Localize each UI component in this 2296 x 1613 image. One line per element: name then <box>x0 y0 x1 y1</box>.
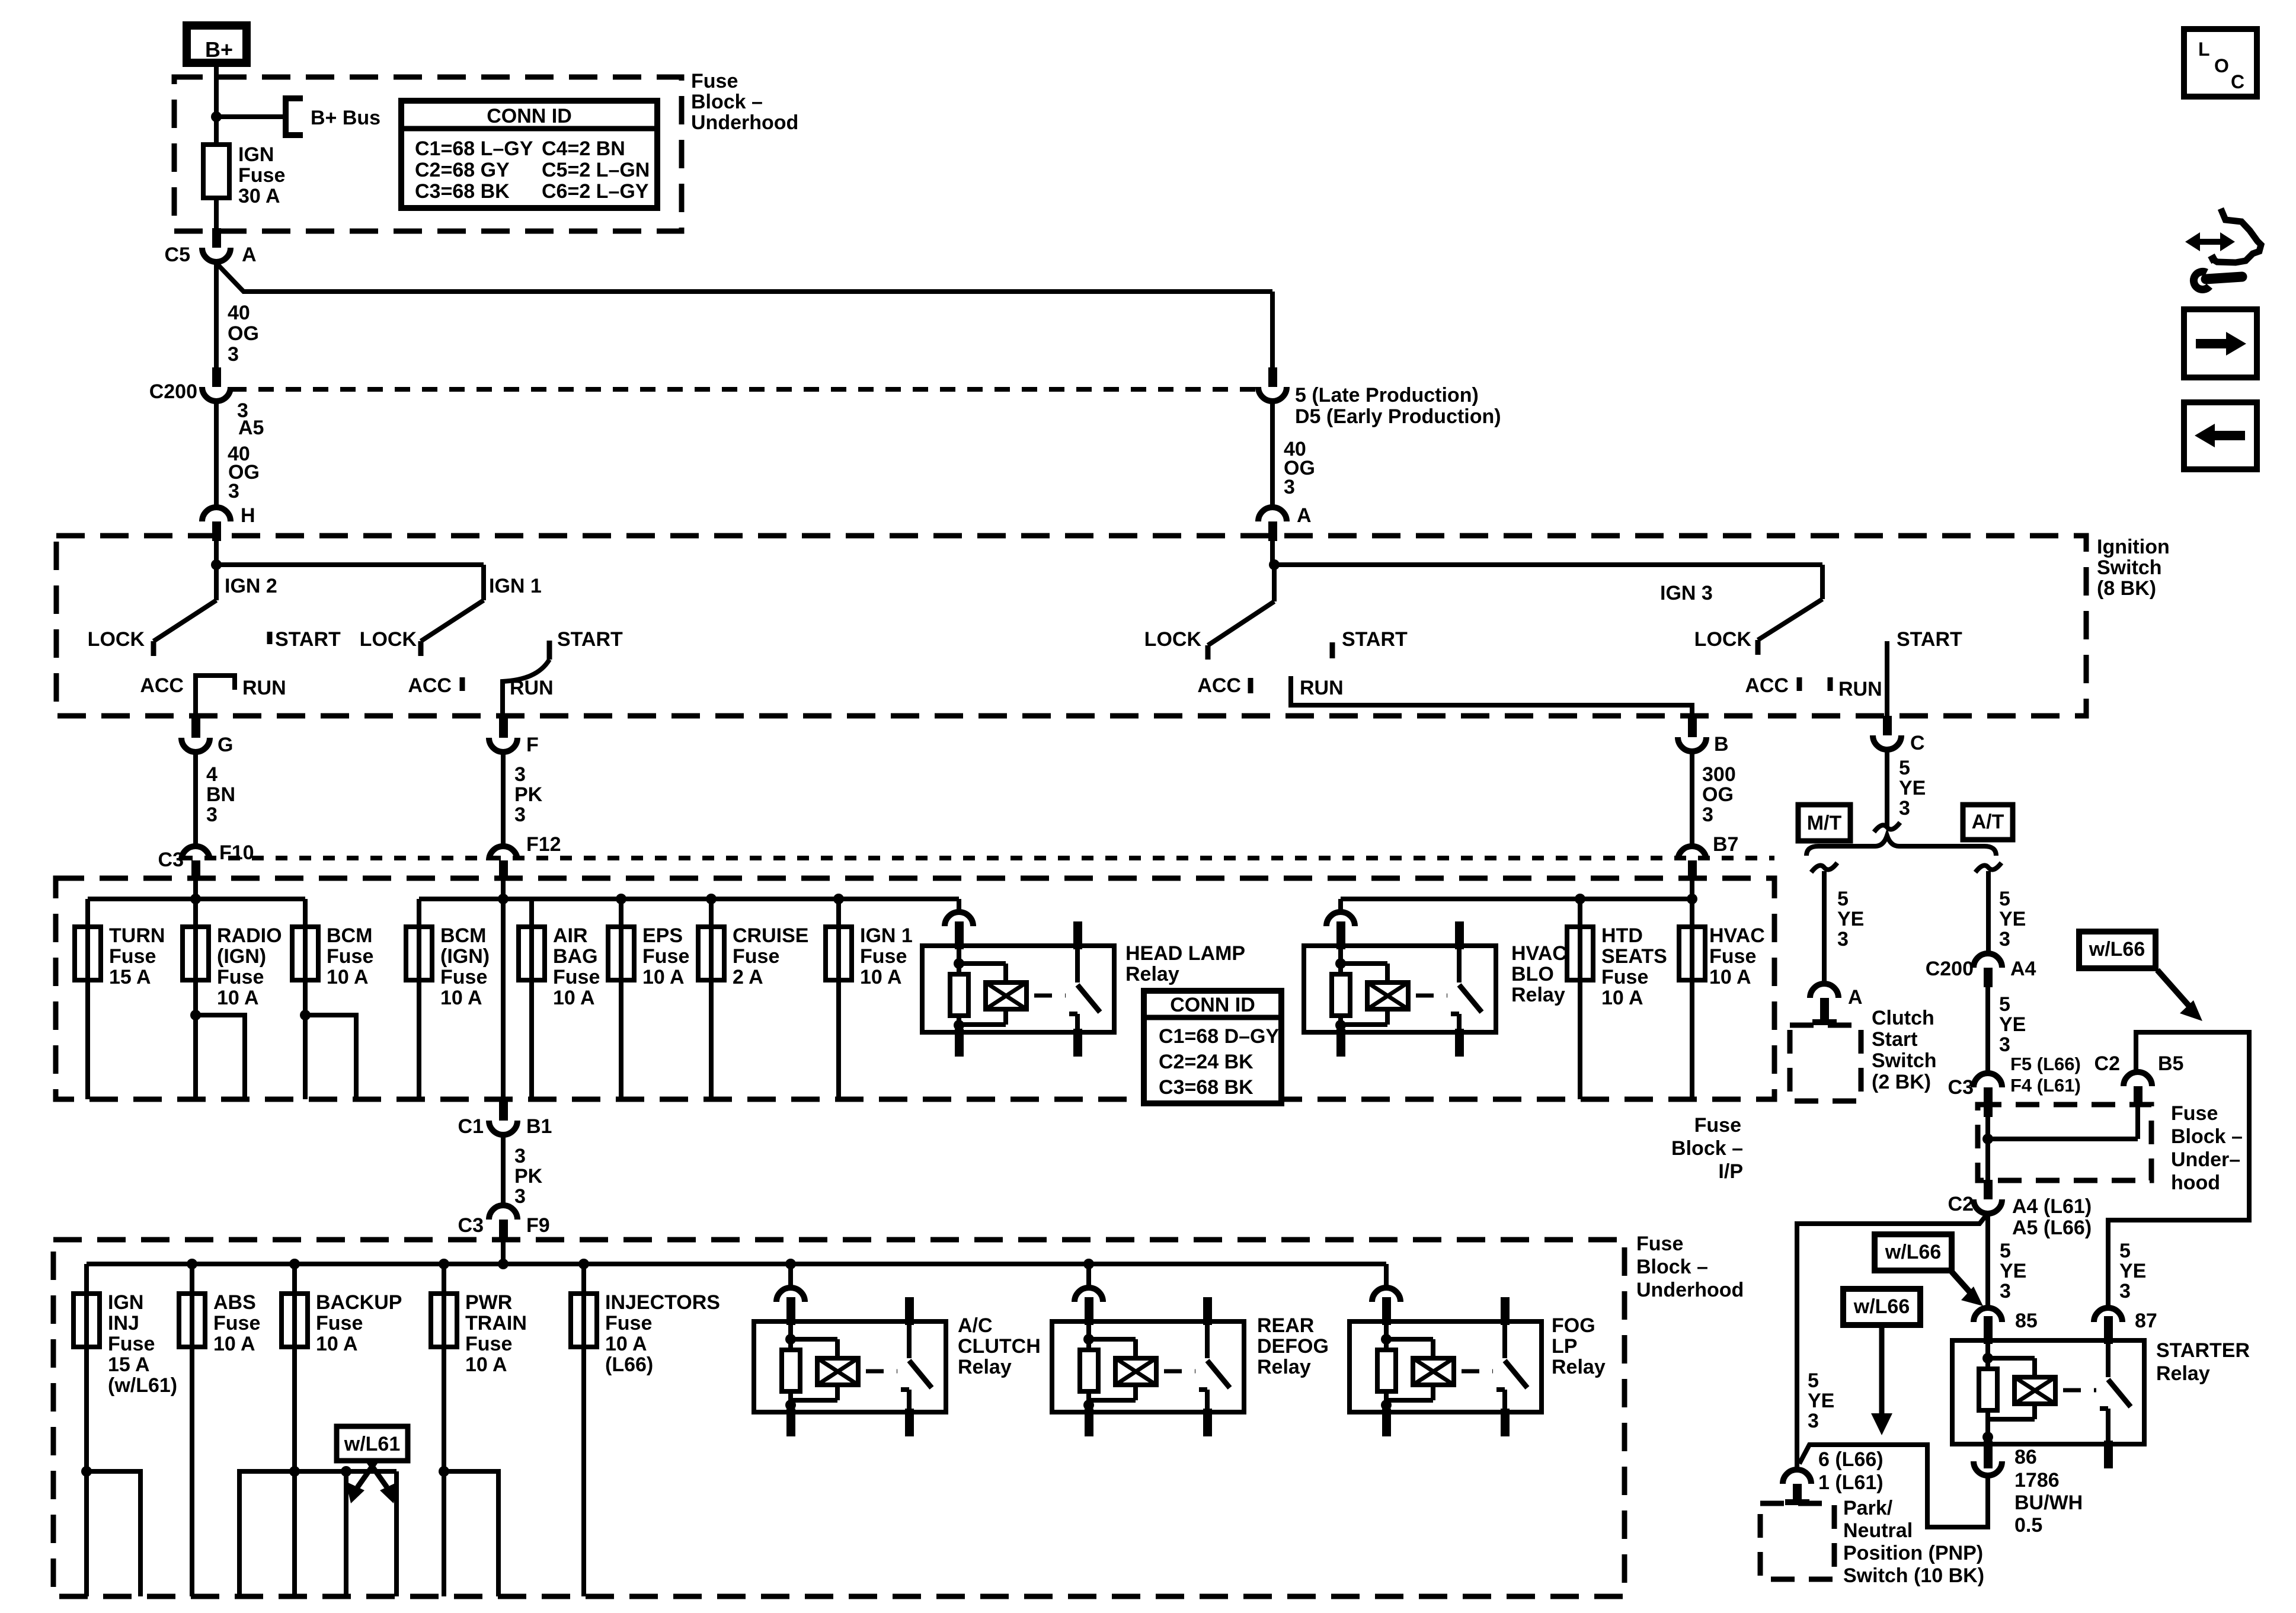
svg-text:C3: C3 <box>1948 1076 1974 1099</box>
svg-text:ACC: ACC <box>1745 674 1789 697</box>
svg-text:5: 5 <box>1999 993 2010 1016</box>
svg-text:Fuse: Fuse <box>109 945 156 968</box>
connector 87 <box>2094 1308 2122 1322</box>
wire 86 to PNP <box>1799 1445 1988 1527</box>
wire ABS column <box>190 1264 194 1596</box>
svg-text:3: 3 <box>228 480 239 503</box>
fuse IGN INJ 15A (w/L61) <box>73 1294 100 1347</box>
svg-text:C3=68 BK: C3=68 BK <box>1159 1076 1253 1099</box>
wire: IGN fuse to C5 <box>214 197 219 229</box>
ignition switch section 3 (RUN to B) <box>1270 539 1275 565</box>
svg-text:INJECTORS: INJECTORS <box>605 1291 720 1314</box>
connector C <box>1883 716 1892 735</box>
svg-text:w/L66: w/L66 <box>1853 1295 1910 1318</box>
fuse RADIO (IGN) 10A <box>183 927 209 980</box>
svg-text:Park/: Park/ <box>1843 1497 1893 1519</box>
svg-text:3: 3 <box>514 804 526 826</box>
svg-text:Fuse: Fuse <box>691 70 738 92</box>
svg-text:DEFOG: DEFOG <box>1257 1335 1329 1358</box>
svg-text:(IGN): (IGN) <box>440 945 490 968</box>
svg-text:3: 3 <box>1899 797 1910 820</box>
svg-text:3: 3 <box>206 804 218 826</box>
svg-text:LOCK: LOCK <box>88 628 145 651</box>
wire: C200 to H <box>214 401 219 507</box>
svg-text:IGN 2: IGN 2 <box>225 575 277 597</box>
wire BCM column <box>303 899 308 1099</box>
svg-text:AIR: AIR <box>553 924 588 947</box>
svg-text:FOG: FOG <box>1552 1314 1595 1337</box>
svg-text:F10: F10 <box>219 841 254 864</box>
svg-text:Switch (10 BK): Switch (10 BK) <box>1843 1564 1984 1587</box>
w/L61 flag box and arrows <box>337 1426 408 1461</box>
relay A/C CLUTCH <box>754 1321 946 1412</box>
svg-text:I/P: I/P <box>1718 1160 1743 1183</box>
svg-text:10 A: 10 A <box>1601 987 1643 1009</box>
svg-text:Fuse: Fuse <box>553 966 600 988</box>
svg-text:C2=68 GY: C2=68 GY <box>415 159 510 181</box>
svg-text:Block –: Block – <box>691 91 763 113</box>
svg-text:Relay: Relay <box>2156 1362 2210 1385</box>
I/P right bus <box>419 897 959 901</box>
fuse CRUISE 2A <box>709 899 714 1099</box>
svg-text:3: 3 <box>1837 928 1849 950</box>
svg-text:F: F <box>526 734 539 756</box>
svg-text:87: 87 <box>2135 1310 2157 1332</box>
svg-text:Fuse: Fuse <box>733 945 779 968</box>
svg-text:3: 3 <box>1999 928 2010 950</box>
svg-text:Fuse: Fuse <box>1601 966 1648 988</box>
svg-text:TURN: TURN <box>109 924 165 947</box>
wire: C5 down to C200 <box>214 262 219 367</box>
svg-text:Fuse: Fuse <box>2171 1102 2218 1125</box>
fuse HVAC 10A <box>1690 879 1694 1099</box>
svg-text:85: 85 <box>2015 1310 2038 1332</box>
I/P left bus <box>88 897 305 901</box>
svg-text:10 A: 10 A <box>213 1333 255 1355</box>
svg-text:M/T: M/T <box>1807 812 1842 834</box>
svg-text:ACC: ACC <box>408 674 452 697</box>
svg-text:Ignition: Ignition <box>2097 536 2170 558</box>
svg-text:C4=2 BN: C4=2 BN <box>542 137 625 160</box>
svg-text:Fuse: Fuse <box>108 1333 155 1355</box>
HEAD LAMP relay feed <box>957 899 961 913</box>
svg-text:IGN 1: IGN 1 <box>489 575 542 597</box>
svg-text:BCM: BCM <box>327 924 372 947</box>
svg-text:Fuse: Fuse <box>465 1333 512 1355</box>
svg-text:STARTER: STARTER <box>2156 1339 2250 1362</box>
output loop below PWR TRAIN <box>439 1466 449 1477</box>
fuse block underhood (top) dashed box <box>174 77 682 231</box>
svg-text:PWR: PWR <box>465 1291 512 1314</box>
next-page arrow box <box>2184 309 2257 377</box>
svg-text:(L66): (L66) <box>605 1353 653 1376</box>
svg-text:START: START <box>557 628 623 651</box>
svg-text:ACC: ACC <box>1197 674 1241 697</box>
svg-text:Fuse: Fuse <box>217 966 264 988</box>
svg-text:Switch: Switch <box>2097 556 2162 579</box>
svg-text:START: START <box>1897 628 1962 651</box>
relay FOG LP <box>1350 1321 1542 1412</box>
wire G to F10, label 4 BN 3 <box>193 752 198 846</box>
svg-text:LOCK: LOCK <box>1144 628 1202 651</box>
svg-text:HEAD LAMP: HEAD LAMP <box>1125 942 1245 965</box>
relay REAR DEFOG <box>1052 1321 1244 1412</box>
svg-text:Under–: Under– <box>2171 1148 2240 1171</box>
wire: down to ignition switch A <box>1270 401 1275 508</box>
wire: to B+ Bus <box>216 114 286 119</box>
svg-text:Fuse: Fuse <box>440 966 487 988</box>
svg-text:Relay: Relay <box>1257 1356 1311 1378</box>
CONN ID table (I/P) <box>1144 991 1281 1103</box>
relay REAR DEFOG feed <box>1086 1264 1091 1288</box>
svg-text:30 A: 30 A <box>238 185 280 207</box>
svg-text:5 (Late Production): 5 (Late Production) <box>1295 384 1479 407</box>
IGN2 START contact <box>267 632 273 644</box>
svg-text:w/L66: w/L66 <box>2089 938 2145 961</box>
svg-text:C2: C2 <box>2094 1052 2120 1075</box>
ignition switch dashed box <box>56 536 2086 716</box>
ignition switch section 4 (START to C) <box>1820 565 1825 599</box>
fuse TURN 15A <box>75 927 101 980</box>
svg-text:Start: Start <box>1872 1028 1917 1051</box>
relay HEAD LAMP <box>922 946 1114 1032</box>
svg-text:(IGN): (IGN) <box>217 945 266 968</box>
svg-text:D5 (Early Production): D5 (Early Production) <box>1295 405 1501 428</box>
battery feed B+ box <box>187 25 247 63</box>
svg-text:BN: BN <box>206 783 235 806</box>
svg-text:BLO: BLO <box>1511 963 1554 985</box>
svg-text:A: A <box>1297 504 1312 527</box>
IGN2 blade to LOCK <box>154 600 216 641</box>
fuse ABS 10A <box>179 1294 205 1347</box>
connector 86 <box>1984 1442 1993 1461</box>
fuse IGN 1 10A <box>836 899 841 1099</box>
svg-text:TRAIN: TRAIN <box>465 1312 527 1334</box>
section3 RUN contact feed to B <box>1291 676 1692 716</box>
connector A <box>1258 507 1287 521</box>
svg-text:C6=2 L–GY: C6=2 L–GY <box>542 180 649 203</box>
svg-text:3: 3 <box>2000 1280 2011 1302</box>
wire BACKUP column <box>292 1264 297 1596</box>
svg-text:5: 5 <box>1808 1369 1819 1392</box>
svg-text:CRUISE: CRUISE <box>733 924 808 947</box>
svg-text:A/C: A/C <box>958 1314 993 1337</box>
svg-text:15 A: 15 A <box>109 966 151 988</box>
svg-text:C3=68 BK: C3=68 BK <box>415 180 510 203</box>
svg-text:B5: B5 <box>2158 1052 2183 1075</box>
svg-text:300: 300 <box>1702 763 1736 786</box>
svg-text:Relay: Relay <box>1125 963 1179 985</box>
svg-text:YE: YE <box>1899 777 1926 799</box>
svg-text:C1=68 L–GY: C1=68 L–GY <box>415 137 533 160</box>
wrench icon <box>2206 277 2242 279</box>
svg-text:1786: 1786 <box>2014 1469 2060 1492</box>
svg-text:5: 5 <box>2000 1240 2011 1262</box>
svg-text:Relay: Relay <box>958 1356 1012 1378</box>
svg-text:ACC: ACC <box>140 674 184 697</box>
svg-text:3: 3 <box>2119 1280 2131 1302</box>
wire A4 to C3, label 5 YE 3 <box>1985 987 1990 1073</box>
svg-text:HVAC: HVAC <box>1709 924 1765 947</box>
svg-text:INJ: INJ <box>108 1312 139 1334</box>
svg-text:(2 BK): (2 BK) <box>1872 1071 1931 1093</box>
w/L66 flag box (top) <box>2079 932 2156 968</box>
svg-text:RUN: RUN <box>242 677 286 699</box>
svg-text:BACKUP: BACKUP <box>316 1291 402 1314</box>
fuse PWR TRAIN 10A <box>431 1294 457 1347</box>
svg-text:Fuse: Fuse <box>1694 1114 1741 1137</box>
svg-text:START: START <box>1342 628 1408 651</box>
svg-text:OG: OG <box>228 322 259 345</box>
svg-text:RUN: RUN <box>510 677 554 699</box>
svg-text:C2=24 BK: C2=24 BK <box>1159 1051 1253 1073</box>
svg-text:CONN ID: CONN ID <box>1170 994 1255 1016</box>
HVAC BLO relay feed bus <box>1341 897 1692 901</box>
CONN ID table (underhood) <box>401 101 657 208</box>
svg-text:10 A: 10 A <box>440 987 482 1009</box>
wire RADIO column <box>193 879 198 1099</box>
svg-text:C5=2 L–GN: C5=2 L–GN <box>542 159 650 181</box>
connector G <box>191 718 200 738</box>
svg-text:(w/L61): (w/L61) <box>108 1374 177 1397</box>
svg-text:LOCK: LOCK <box>360 628 417 651</box>
svg-text:H: H <box>241 504 255 527</box>
wire: C2 branch to PNP (left loop) <box>1797 1215 1987 1470</box>
svg-text:B7: B7 <box>1713 833 1738 856</box>
svg-text:Fuse: Fuse <box>327 945 373 968</box>
svg-text:Underhood: Underhood <box>691 111 798 134</box>
svg-text:w/L66: w/L66 <box>1885 1241 1941 1263</box>
C200 connector line (dotted, lower) <box>181 856 1774 860</box>
connector C5 / A <box>212 228 221 248</box>
svg-text:PK: PK <box>514 783 543 806</box>
svg-text:BAG: BAG <box>553 945 598 968</box>
svg-text:YE: YE <box>2000 1260 2026 1282</box>
fuse EPS 10A <box>619 899 623 1099</box>
svg-text:10 A: 10 A <box>465 1353 507 1376</box>
svg-text:IGN 1: IGN 1 <box>860 924 913 947</box>
svg-text:10 A: 10 A <box>1709 966 1751 988</box>
svg-text:w/L61: w/L61 <box>344 1433 400 1455</box>
svg-text:15 A: 15 A <box>108 1353 150 1376</box>
svg-text:5: 5 <box>1899 757 1910 779</box>
LOC reference box <box>2184 29 2257 97</box>
wire: B+ down to IGN fuse <box>214 63 219 145</box>
svg-text:2 A: 2 A <box>733 966 763 988</box>
svg-text:0.5: 0.5 <box>2014 1514 2042 1537</box>
svg-text:3: 3 <box>514 763 526 786</box>
svg-text:B+ Bus: B+ Bus <box>311 107 380 129</box>
fuse: IGN Fuse 30 A <box>203 145 229 198</box>
svg-text:40: 40 <box>228 302 250 324</box>
svg-text:Clutch: Clutch <box>1872 1007 1934 1029</box>
svg-text:(8 BK): (8 BK) <box>2097 577 2156 600</box>
svg-text:Fuse: Fuse <box>316 1312 363 1334</box>
svg-text:L: L <box>2198 39 2210 60</box>
svg-text:3: 3 <box>1999 1033 2010 1056</box>
svg-text:LOCK: LOCK <box>1694 628 1752 651</box>
fuse BACKUP 10A <box>282 1294 308 1347</box>
svg-text:C200: C200 <box>1926 958 1974 980</box>
wire IGN INJ column <box>84 1264 89 1596</box>
wire BCM(IGN) column <box>417 899 421 1099</box>
svg-text:Relay: Relay <box>1511 984 1565 1006</box>
relay HVAC BLO <box>1304 946 1496 1032</box>
svg-text:Block –: Block – <box>1636 1256 1708 1278</box>
svg-text:10 A: 10 A <box>217 987 259 1009</box>
w/L66 arrow to fuse block corner <box>2157 970 2189 1006</box>
M/T box <box>1798 805 1850 841</box>
connector 5/D5 (right branch) <box>1268 367 1277 387</box>
relay FOG LP feed <box>1384 1264 1389 1288</box>
svg-text:6 (L66): 6 (L66) <box>1818 1448 1884 1471</box>
brace for M/T / A/T split <box>1806 836 1996 856</box>
B+ Bus bar symbol <box>286 98 303 135</box>
connector A (clutch start switch) <box>1810 984 1838 998</box>
svg-text:A5 (L66): A5 (L66) <box>2012 1217 2092 1239</box>
svg-text:3: 3 <box>228 343 239 366</box>
fuse AIR BAG 10A <box>519 927 545 980</box>
svg-text:ABS: ABS <box>213 1291 256 1314</box>
wire AIR BAG column <box>529 899 534 1099</box>
connector 85 <box>1974 1308 2002 1322</box>
M/T branch <box>1811 863 1837 872</box>
svg-text:C1=68 D–GY: C1=68 D–GY <box>1159 1025 1279 1048</box>
connector B <box>1688 718 1697 737</box>
svg-text:A/T: A/T <box>1972 811 2004 833</box>
fuse block underhood pointer box (solid) <box>2108 1032 2249 1305</box>
A/T box <box>1963 805 2013 840</box>
svg-text:HTD: HTD <box>1601 924 1643 947</box>
connector C1/B1 <box>499 1101 508 1121</box>
svg-text:A4: A4 <box>2010 958 2036 980</box>
svg-text:O: O <box>2214 55 2229 76</box>
svg-text:F9: F9 <box>526 1214 550 1237</box>
svg-text:10 A: 10 A <box>327 966 369 988</box>
underhood bus <box>501 1240 506 1264</box>
svg-text:SEATS: SEATS <box>1601 945 1667 968</box>
svg-text:F4 (L61): F4 (L61) <box>2010 1075 2081 1096</box>
svg-text:YE: YE <box>1808 1390 1834 1412</box>
svg-text:RADIO: RADIO <box>217 924 282 947</box>
IGN1 START contact and wiper <box>547 641 552 660</box>
svg-text:B+: B+ <box>205 37 233 62</box>
PNP switch dashed box <box>1760 1503 1834 1579</box>
svg-text:3: 3 <box>514 1145 526 1167</box>
relay STARTER <box>1952 1340 2144 1444</box>
node: B+ bus junction <box>211 111 222 122</box>
svg-text:F5 (L66): F5 (L66) <box>2010 1054 2081 1074</box>
svg-text:YE: YE <box>1837 908 1864 930</box>
svg-text:Block –: Block – <box>1671 1137 1743 1160</box>
fuse BCM (IGN) 10A <box>406 927 432 980</box>
svg-text:A5: A5 <box>238 417 264 439</box>
wire: branch from C5 to right <box>216 263 1272 292</box>
w/L66 flag box (lower) with arrow <box>1843 1289 1920 1325</box>
svg-text:F12: F12 <box>526 833 561 856</box>
svg-text:Switch: Switch <box>1872 1049 1937 1072</box>
w/L66 flag box (middle) with arrow <box>1875 1234 1952 1270</box>
A/T branch <box>1975 863 2001 872</box>
wire: right branch down to C200 line <box>1270 292 1275 367</box>
output loops below underhood fuses <box>81 1466 92 1477</box>
svg-text:3: 3 <box>1702 804 1713 826</box>
svg-text:Fuse: Fuse <box>1709 945 1756 968</box>
svg-text:G: G <box>218 734 233 756</box>
wire INJECTORS column <box>581 1264 586 1596</box>
svg-text:CONN ID: CONN ID <box>487 105 572 127</box>
fuse HTD SEATS 10A <box>1578 899 1582 1099</box>
vehicle service icon <box>2211 209 2261 263</box>
svg-text:LP: LP <box>1552 1335 1577 1358</box>
svg-text:5: 5 <box>2119 1240 2131 1262</box>
svg-text:B: B <box>1714 733 1729 756</box>
svg-text:Underhood: Underhood <box>1636 1279 1744 1301</box>
svg-text:Neutral: Neutral <box>1843 1519 1913 1542</box>
svg-text:C1: C1 <box>458 1115 484 1138</box>
fuse BCM 10A <box>292 927 318 980</box>
svg-text:1 (L61): 1 (L61) <box>1818 1471 1884 1494</box>
ignition switch IGN 1 section <box>216 562 484 567</box>
svg-text:10 A: 10 A <box>642 966 685 988</box>
wire TURN <box>85 899 90 1099</box>
wire break curl on C wire <box>1874 822 1900 832</box>
clutch start switch dashed box <box>1790 1025 1861 1101</box>
svg-text:BCM: BCM <box>440 924 486 947</box>
wire: C2 to 85 <box>1985 1214 1990 1308</box>
wire B to B7, label 300 OG 3 <box>1690 751 1694 846</box>
connector C2/A4(L61) A5(L66) <box>1984 1180 1993 1199</box>
connector 6(L66)/1(L61) at PNP <box>1783 1470 1811 1484</box>
connector F <box>499 718 508 738</box>
svg-text:C: C <box>2231 71 2244 92</box>
svg-text:3: 3 <box>1808 1410 1819 1432</box>
small fuse block underhood dashed box (right) <box>1978 1105 2151 1180</box>
connector H <box>202 507 231 521</box>
svg-text:3: 3 <box>1284 476 1295 498</box>
svg-text:C2: C2 <box>1948 1193 1974 1215</box>
svg-text:IGN: IGN <box>108 1291 143 1314</box>
wire PWR TRAIN column <box>442 1264 446 1596</box>
svg-text:Fuse: Fuse <box>860 945 907 968</box>
connector C200 / A5 <box>212 367 221 387</box>
svg-text:10 A: 10 A <box>605 1333 647 1355</box>
svg-text:PK: PK <box>514 1165 543 1188</box>
svg-text:START: START <box>275 628 341 651</box>
svg-text:HVAC: HVAC <box>1511 942 1567 965</box>
svg-text:10 A: 10 A <box>553 987 595 1009</box>
C200 connector line (dotted) <box>231 387 1256 392</box>
svg-text:IGN: IGN <box>238 143 274 166</box>
wire F to F12, label 3 PK 3 <box>501 752 506 846</box>
svg-text:YE: YE <box>1999 908 2026 930</box>
svg-text:OG: OG <box>1702 783 1734 806</box>
svg-text:EPS: EPS <box>642 924 683 947</box>
svg-text:3: 3 <box>514 1185 526 1208</box>
svg-text:CLUTCH: CLUTCH <box>958 1335 1041 1358</box>
wire C1 to C3/F9, label 3 PK 3 <box>501 1135 506 1205</box>
svg-text:5: 5 <box>1837 888 1849 910</box>
section4 START wiper to C <box>1885 641 1889 716</box>
svg-text:IGN 3: IGN 3 <box>1660 582 1713 604</box>
output loops below I/P fuses <box>190 1010 201 1020</box>
svg-text:5: 5 <box>1999 888 2010 910</box>
relay A/C CLUTCH feed <box>788 1264 793 1288</box>
svg-text:BU/WH: BU/WH <box>2014 1492 2083 1514</box>
svg-text:YE: YE <box>1999 1013 2026 1036</box>
svg-text:Position (PNP): Position (PNP) <box>1843 1542 1983 1564</box>
wire from pointer box to 87 <box>2106 1220 2110 1308</box>
